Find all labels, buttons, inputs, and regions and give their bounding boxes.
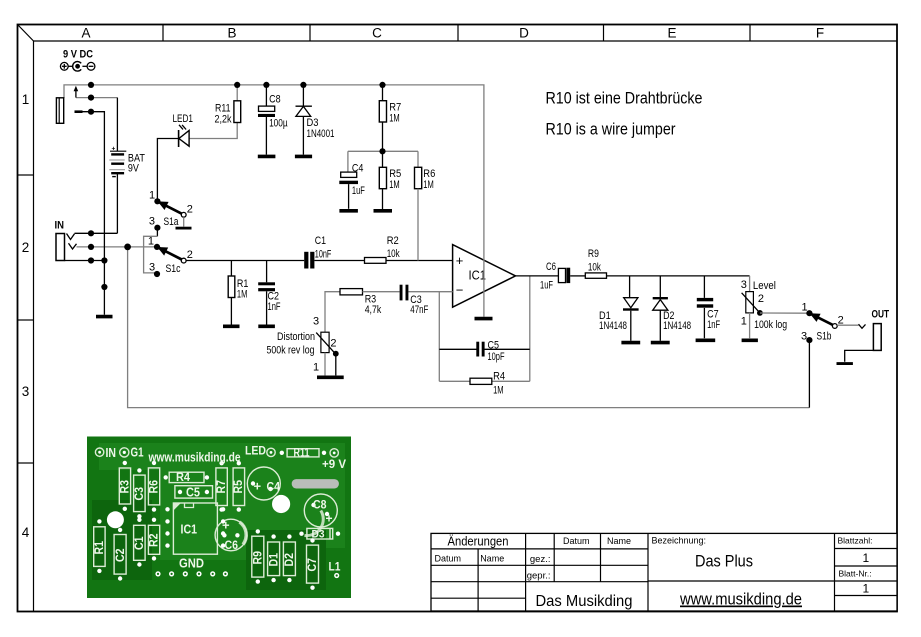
output jack OUT [859,309,890,351]
switch S1c [148,236,193,278]
svg-text:2: 2 [187,249,193,261]
junction: bias node [379,148,385,154]
svg-text:gez.:: gez.: [530,554,551,565]
junction: rail at D3 [300,82,306,88]
ground at IC1 pin4 [475,317,493,321]
capacitor C2 1nF [258,261,280,325]
junction dots on DC jack lines [88,82,94,115]
svg-text:R11: R11 [294,446,310,460]
resistor R5 1M [379,167,401,209]
ground at R5 [374,209,393,213]
svg-text:1M: 1M [493,385,504,397]
svg-text:G1: G1 [131,445,144,460]
svg-text:R6: R6 [147,480,161,494]
svg-text:3: 3 [313,316,319,328]
capacitor C5 10pF [476,340,504,364]
ground at OUT jack [837,362,853,365]
svg-text:9V: 9V [128,162,140,174]
resistor R3 4,7k [340,289,382,316]
diode D3 1N4001 [296,85,335,155]
diode D1 1N4148 [599,276,639,341]
capacitor C6 1uF [540,261,570,292]
svg-text:1: 1 [149,190,155,202]
svg-text:C7: C7 [305,558,319,572]
wire: IN ring to S1c pin 1 [77,246,156,248]
wire: IN sleeve to ground [65,260,105,262]
svg-text:Datum: Datum [435,554,462,564]
svg-text:OUT: OUT [872,309,890,321]
ground at input [96,315,113,319]
svg-text:Das Plus: Das Plus [695,552,753,571]
svg-text:C8: C8 [269,94,281,106]
svg-text:Distortion: Distortion [277,331,315,343]
svg-text:R3: R3 [118,480,132,494]
svg-text:1M: 1M [389,113,400,125]
svg-text:R4: R4 [493,371,505,383]
svg-text:Blattzahl:: Blattzahl: [838,536,873,546]
svg-text:C8: C8 [313,498,327,512]
svg-text:1: 1 [148,236,154,248]
svg-text:+: + [222,518,230,533]
wire: S1c pin2 to C1 [186,260,304,262]
wire: R11 bottom to LED anode [189,123,237,139]
junction: rail at C8 [263,82,269,88]
junction: rail at R11 [234,82,240,88]
ground at R1 [223,324,240,328]
potentiometer Level 100k log [741,276,787,338]
capacitor C8 100u [258,85,288,155]
svg-text:Blatt-Nr.:: Blatt-Nr.: [839,569,872,579]
junction: input node to bypass loop [124,244,131,251]
svg-text:10k: 10k [387,248,400,260]
resistor R11 2,2k [215,101,241,126]
svg-text:IC1: IC1 [181,522,198,537]
svg-text:C3: C3 [132,487,146,501]
wire: LED cathode to S1a pin 1 [157,139,178,200]
svg-text:IN: IN [106,445,117,460]
ground at S1a pin 2 [176,217,192,228]
svg-text:1: 1 [22,92,30,107]
battery BAT 9V [109,98,145,234]
wire: R2 to IC1 plus input [386,260,453,262]
svg-text:C6: C6 [225,538,239,552]
svg-text:1uF: 1uF [540,280,553,292]
svg-text:1N4148: 1N4148 [663,320,691,332]
wire: S1b pin3 down to bypass loop [808,341,810,408]
svg-text:C1: C1 [132,536,146,550]
svg-text:1M: 1M [237,289,248,301]
wire: bias node horizontal [348,150,418,152]
diode D2 1N4148 [653,276,691,341]
svg-text:www.musikding.de: www.musikding.de [148,451,241,465]
wire: bypass loop from input node to S1b pin3 [128,247,810,408]
resistor R6 1M [415,151,436,260]
svg-text:3: 3 [149,262,155,274]
svg-text:R2: R2 [387,235,399,247]
ground at C4 [339,209,358,213]
wire: IN tip line to battery minus [75,232,118,234]
svg-text:IN: IN [55,220,65,232]
input jack IN [55,220,77,261]
wire: R4 branch [439,380,530,382]
svg-text:LED: LED [245,444,266,458]
svg-text:+9 V: +9 V [322,457,346,471]
svg-text:Das Musikding: Das Musikding [536,593,633,610]
op-amp IC1 [453,245,516,308]
resistor R4 1M [470,371,505,397]
svg-text:R1: R1 [92,541,106,555]
switch S1b [801,302,844,344]
svg-text:1N4148: 1N4148 [599,320,627,332]
junction dots at input jack [88,230,108,290]
wire: Level wiper to S1b pin 1 [760,312,808,314]
svg-text:1uF: 1uF [352,185,365,197]
svg-text:+: + [326,512,333,526]
wire: R3 to Distortion pot [325,292,340,333]
svg-text:1: 1 [741,316,747,328]
svg-text:R2: R2 [147,533,161,547]
svg-text:R10 is a wire jumper: R10 is a wire jumper [546,121,676,139]
svg-text:D: D [519,26,529,41]
svg-text:F: F [816,26,824,41]
wire: minus input line [408,291,452,293]
svg-text:C: C [372,26,382,41]
svg-text:100µ: 100µ [269,118,288,130]
wire: R3 to C3 [363,291,400,293]
potentiometer Distortion 500k rev log [267,316,339,376]
capacitor C7 1nF [697,276,720,338]
svg-text:47nF: 47nF [410,304,428,316]
svg-text:S1c: S1c [166,263,181,275]
wire: R11 top to rail [236,85,238,101]
svg-text:C2: C2 [113,548,127,562]
svg-text:1nF: 1nF [268,301,281,313]
svg-text:4: 4 [22,525,30,540]
svg-text:+: + [456,253,464,268]
svg-text:10k: 10k [588,262,601,274]
svg-text:B: B [227,26,236,41]
svg-text:4,7k: 4,7k [365,304,382,316]
svg-text:gepr.:: gepr.: [527,570,551,581]
svg-text:+: + [254,479,262,494]
svg-text:10nF: 10nF [315,249,332,261]
svg-text:3: 3 [741,279,747,291]
ground at D3 [295,155,312,159]
svg-text:100k log: 100k log [754,319,787,331]
capacitor C4 1uF [339,151,365,209]
svg-text:1M: 1M [389,179,400,191]
svg-text:D3: D3 [307,117,319,129]
svg-text:D3: D3 [312,529,325,541]
DC power jack J1 [56,86,78,124]
svg-text:C1: C1 [315,235,326,247]
svg-text:E: E [667,26,676,41]
svg-text:D1: D1 [266,553,280,567]
svg-text:R7: R7 [214,480,228,494]
ground at C2 [258,324,275,328]
wire: S1b pin2 to OUT jack [837,324,858,326]
svg-text:D2: D2 [282,553,296,567]
svg-text:S1b: S1b [817,331,832,343]
svg-text:Level: Level [753,280,776,292]
svg-text:Bezeichnung:: Bezeichnung: [652,536,707,546]
wire: S1a pin3 to S1c pin3 link [156,230,158,237]
title block [431,533,897,611]
switch S1a [149,190,193,231]
svg-text:9 V DC: 9 V DC [63,49,93,61]
svg-text:C5: C5 [186,485,200,500]
svg-text:3: 3 [149,216,155,228]
ground at Level pot [742,338,758,342]
svg-text:R9: R9 [251,551,265,565]
wire: feedback vertical from minus node [438,292,440,382]
capacitor C3 47nF [400,285,429,316]
svg-text:C5: C5 [488,340,500,352]
svg-text:1: 1 [862,582,869,596]
svg-text:10pF: 10pF [488,351,505,363]
svg-text:2: 2 [758,293,764,305]
resistor R9 10k [585,248,606,278]
junction: rail at R7 [379,82,385,88]
svg-text:LED1: LED1 [173,113,194,125]
wire: C5 branch [439,348,530,350]
svg-text:500k rev log: 500k rev log [267,345,315,357]
svg-text:C4: C4 [267,480,281,494]
svg-text:Name: Name [480,554,504,564]
svg-text:Datum: Datum [563,536,590,546]
ground at D2 [651,341,670,345]
svg-text:2,2k: 2,2k [215,114,232,126]
wire: C6 to R9 [570,275,585,277]
svg-text:2: 2 [22,240,30,255]
PCB board image [87,437,351,599]
svg-text:C6: C6 [546,261,556,273]
svg-text:1nF: 1nF [707,319,720,331]
resistor R7 1M [379,85,401,167]
wire: feedback vertical from output [529,276,531,381]
resistor R1 1M [228,261,248,325]
svg-text:2: 2 [330,338,336,350]
DC plug polarity symbol [60,62,95,72]
LED1 [173,113,194,147]
ground at C8 [258,155,276,159]
ground at C7 [696,338,716,342]
svg-text:GND: GND [179,556,204,571]
svg-text:R10 ist eine Drahtbrücke: R10 ist eine Drahtbrücke [546,90,703,108]
svg-text:R4: R4 [176,470,190,484]
svg-text:S1a: S1a [164,216,180,228]
svg-text:1M: 1M [423,179,434,191]
svg-text:Name: Name [607,536,631,546]
svg-text:2: 2 [187,204,193,216]
svg-text:L1: L1 [329,560,341,574]
wire: DC jack center pin to battery plus [76,97,117,99]
svg-text:Änderungen: Änderungen [448,535,509,549]
svg-text:A: A [81,26,90,41]
svg-text:+: + [112,145,116,152]
wire: +9V rail from DC jack across top and down to IC1 ground [64,85,484,317]
resistor R2 10k [365,235,401,263]
svg-text:−: − [456,283,464,298]
svg-text:1: 1 [862,551,869,565]
wire: R9 to Level pot [607,275,750,277]
svg-text:C4: C4 [352,163,364,175]
svg-text:3: 3 [22,384,30,399]
svg-text:R5: R5 [231,480,245,494]
ground at D1 [621,341,640,345]
wire: DC jack switch contact to input ground [75,112,105,315]
svg-text:R9: R9 [588,248,599,260]
svg-text:3: 3 [801,331,807,343]
svg-text:1: 1 [313,362,319,374]
wire: OUT jack sleeve to ground [845,350,874,361]
svg-text:1N4001: 1N4001 [307,128,335,140]
svg-text:www.musikding.de: www.musikding.de [679,590,802,609]
ground at Distortion pot [317,375,344,379]
capacitor C1 10nF [304,235,331,269]
wire: C1 to R2 [314,260,364,262]
wire: IC1 output to C6 [516,275,559,277]
